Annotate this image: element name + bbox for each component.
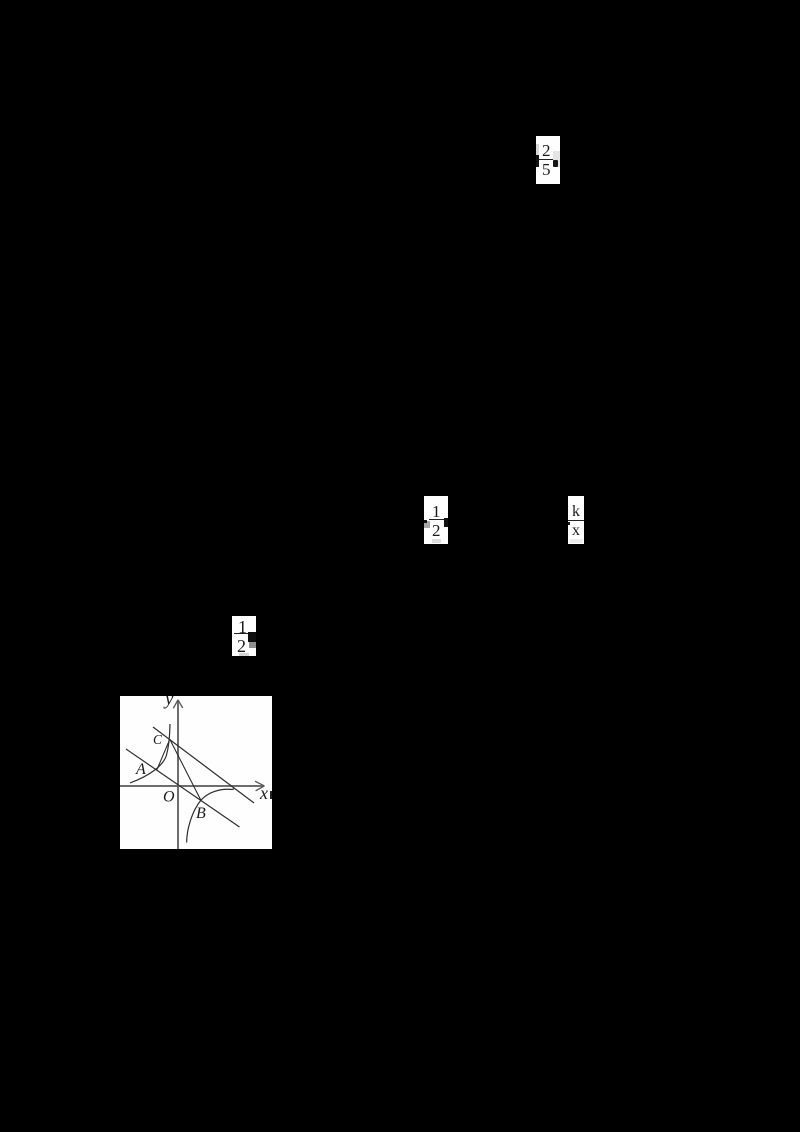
hyperbola branch quadrant IV <box>187 789 234 843</box>
x-axis <box>120 785 264 787</box>
fraction image 1/2 x (white equation patch) <box>232 616 256 656</box>
y-axis arrowhead <box>173 700 182 709</box>
black tick left of bar <box>568 522 570 525</box>
gray block under x mark <box>249 642 256 648</box>
fraction image 2/5 (white equation patch) <box>536 136 560 184</box>
gray patch right <box>553 151 560 167</box>
chord C to B <box>170 739 201 800</box>
coordinate-plane figure (white graph patch) <box>120 696 272 849</box>
fraction bar <box>429 519 448 520</box>
light gray strip bottom <box>239 653 249 656</box>
dark tick at right edge beside x label <box>270 791 272 799</box>
black x mark right <box>248 632 256 642</box>
denominator 2 <box>237 637 246 655</box>
svg-text:C: C <box>153 732 163 747</box>
fraction bar <box>568 520 584 521</box>
light gray strip bottom <box>570 539 583 543</box>
fraction image k/x (white equation patch) <box>568 496 584 544</box>
numerator 1 <box>238 618 247 636</box>
numerator k <box>572 504 580 520</box>
svg-text:y: y <box>163 696 174 710</box>
denominator 5 <box>542 161 551 178</box>
gray smudge left upper <box>536 144 539 156</box>
light gray strip bottom <box>432 539 441 543</box>
x-axis arrowhead <box>255 781 264 791</box>
chord C to A <box>157 739 170 769</box>
numerator 2 <box>542 142 551 159</box>
denominator x <box>572 523 580 539</box>
svg-text:O: O <box>163 789 175 806</box>
denominator 2 <box>432 522 441 539</box>
fraction bar <box>539 159 554 160</box>
black mark on left edge <box>536 155 539 167</box>
svg-text:x: x <box>259 783 268 803</box>
line 2 through A O B <box>126 749 240 827</box>
y-axis <box>177 700 179 849</box>
svg-text:B: B <box>196 805 206 822</box>
numerator 1 <box>432 503 441 520</box>
hyperbola branch quadrant II <box>130 724 170 783</box>
svg-text:A: A <box>135 761 146 778</box>
fraction image 1/2 with comma (white equation patch) <box>424 496 448 544</box>
line 1 through C <box>153 727 254 803</box>
black comma mark right edge <box>444 518 448 527</box>
gray smudge left of denominator <box>424 521 430 528</box>
black tick left edge <box>424 520 427 523</box>
fraction bar <box>234 633 249 634</box>
comma after fraction <box>553 160 558 167</box>
